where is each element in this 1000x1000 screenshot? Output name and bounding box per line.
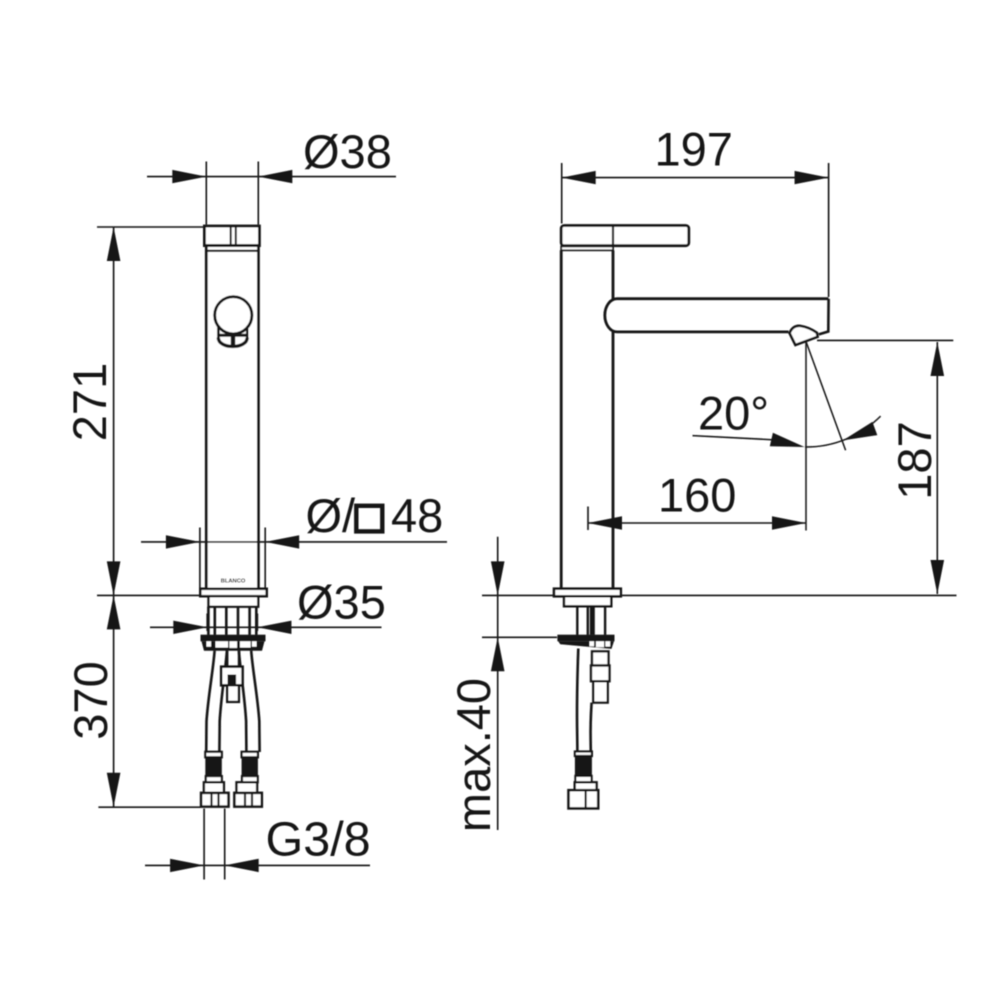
left hose ferrule bbox=[205, 752, 222, 758]
20 degree vertical reference line bbox=[805, 342, 807, 531]
dimension 187 line bbox=[936, 342, 938, 594]
dimension Ø48 extension line left bbox=[199, 528, 201, 596]
dimension Ø35 arrow left bbox=[173, 621, 207, 634]
ring under lever bbox=[561, 246, 613, 250]
20 degree arc bbox=[805, 416, 881, 447]
mounting surface line left view bbox=[97, 594, 200, 596]
dimension 160 arrow left bbox=[588, 516, 622, 529]
body right edge upper (side view) bbox=[612, 250, 615, 299]
dimension 160 extension line bbox=[587, 507, 589, 531]
svg-text:G3/8: G3/8 bbox=[266, 813, 371, 867]
hose braid (side view) bbox=[575, 756, 592, 776]
dimension 197 extension line left bbox=[561, 163, 563, 224]
dimension 370 arrow bottom bbox=[107, 773, 121, 807]
right connector upper bbox=[237, 782, 258, 793]
hose ferrule (side view) bbox=[575, 752, 592, 757]
outlet bracket lines bbox=[217, 327, 220, 340]
threaded shank (front view) bbox=[208, 607, 256, 635]
svg-text:BLANCO: BLANCO bbox=[221, 579, 246, 585]
dimension Ø48 arrow right bbox=[265, 535, 299, 548]
left connector nut bbox=[201, 793, 228, 807]
svg-text:370: 370 bbox=[64, 661, 117, 739]
dimension Ø38 extension line right bbox=[257, 162, 259, 225]
dimension 370 bottom extension line bbox=[98, 806, 200, 808]
body top joint line bbox=[206, 250, 258, 252]
mounting surface line right view bbox=[482, 594, 957, 596]
faucet body (front view) bbox=[206, 246, 258, 589]
svg-text:Ø35: Ø35 bbox=[297, 576, 386, 629]
threaded shank (side view) bbox=[577, 606, 605, 635]
svg-text:48: 48 bbox=[391, 489, 443, 542]
max.40 bottom reference line bbox=[482, 636, 557, 638]
dimension Ø38 arrow right bbox=[258, 170, 292, 183]
dimension Ø38 extension line left bbox=[205, 162, 207, 225]
dimension Ø48 extension line right bbox=[264, 528, 266, 596]
spout end face bbox=[819, 299, 829, 335]
lock nut skirt (front view) bbox=[202, 641, 265, 650]
dimension 187 top extension line bbox=[817, 339, 953, 341]
dimension 160 line bbox=[588, 522, 806, 524]
dimension 271 arrow top bbox=[107, 227, 121, 261]
base plate (side view) bbox=[564, 596, 611, 606]
20 degree leader line bbox=[693, 436, 773, 440]
faucet cap (front view) bbox=[204, 226, 259, 246]
connector upper (side view) bbox=[575, 782, 597, 790]
dimension Ø35 extension stubs bbox=[206, 614, 208, 632]
20 degree spray direction line bbox=[806, 342, 846, 451]
dimension Ø38 arrow left bbox=[172, 170, 206, 183]
svg-text:160: 160 bbox=[658, 469, 736, 522]
dimension 187 arrow bottom bbox=[931, 560, 945, 594]
dimension 197 line bbox=[562, 177, 829, 179]
left supply hose (front view) bbox=[206, 651, 214, 752]
dimension 160 arrow right bbox=[772, 516, 806, 529]
dimension 370 arrow top bbox=[107, 595, 121, 629]
dimension G3/8 extension lines bbox=[203, 809, 205, 880]
dimension 271 top extension line bbox=[97, 226, 206, 228]
dimension 197 arrow right bbox=[795, 171, 829, 184]
dimension max.40 arrow bottom bbox=[491, 637, 505, 671]
dimension 187 arrow top bbox=[931, 342, 945, 376]
spout (side view) bbox=[605, 299, 829, 332]
20 degree arrow right bbox=[843, 422, 877, 441]
right supply hose (front view) bbox=[251, 651, 259, 752]
escutcheon (front view) bbox=[200, 589, 266, 596]
svg-text:20°: 20° bbox=[698, 387, 769, 440]
dimension G3/8 line bbox=[145, 864, 370, 866]
hose collar (side view) bbox=[575, 776, 591, 782]
hose (side view) bbox=[577, 649, 578, 752]
outlet top chord bbox=[218, 334, 248, 337]
outlet bottom arc bbox=[218, 338, 247, 347]
escutcheon (side view) bbox=[554, 589, 621, 597]
dimension Ø35 line bbox=[150, 626, 382, 628]
dimension 271 arrow bottom bbox=[107, 561, 121, 595]
dimension 271/370 vertical line bbox=[113, 227, 115, 807]
dimension Ø38 line bbox=[147, 176, 396, 178]
dimension G3/8 arrow left bbox=[170, 859, 204, 872]
dimension 197 extension line right bbox=[828, 163, 830, 297]
dimension max.40 line bbox=[497, 537, 499, 830]
left hose braid bbox=[205, 757, 222, 776]
check valve stack (side view) bbox=[592, 651, 609, 665]
svg-text:max.40: max.40 bbox=[447, 678, 500, 832]
dimension Ø48 line bbox=[141, 541, 447, 543]
ball handle circle bbox=[215, 297, 252, 334]
body left edge (side view) bbox=[560, 250, 563, 588]
svg-text:187: 187 bbox=[888, 421, 941, 499]
right connector nut bbox=[234, 793, 261, 807]
dimension Ø48 arrow left bbox=[166, 535, 200, 548]
dimension G3/8 arrow right bbox=[225, 859, 259, 872]
center valve (front view) bbox=[226, 651, 228, 667]
outlet center bar bbox=[231, 333, 236, 348]
right hose braid bbox=[242, 757, 258, 776]
svg-text:Ø/: Ø/ bbox=[306, 489, 357, 542]
20 degree arrow left bbox=[770, 433, 805, 447]
dimension max.40 arrow top bbox=[491, 561, 505, 595]
lock nut band (front view) bbox=[201, 635, 266, 642]
svg-text:Ø38: Ø38 bbox=[303, 125, 392, 178]
connector nut (side view) bbox=[569, 790, 599, 808]
cap index marks bbox=[230, 227, 232, 246]
right hose ferrule bbox=[242, 752, 258, 758]
spout outlet beak bbox=[790, 326, 818, 345]
dimension Ø35 arrow right bbox=[257, 621, 291, 634]
lever handle (side view) bbox=[561, 226, 689, 246]
lock nut (side view) bbox=[557, 635, 614, 642]
dimension 197 arrow left bbox=[562, 171, 596, 184]
svg-text:197: 197 bbox=[655, 123, 733, 176]
base block (front view) bbox=[209, 596, 259, 607]
svg-text:271: 271 bbox=[63, 363, 116, 441]
right hose collar bbox=[242, 776, 258, 782]
left connector upper bbox=[204, 782, 224, 793]
left hose collar bbox=[206, 776, 222, 782]
body right edge lower (side view) bbox=[612, 332, 615, 589]
